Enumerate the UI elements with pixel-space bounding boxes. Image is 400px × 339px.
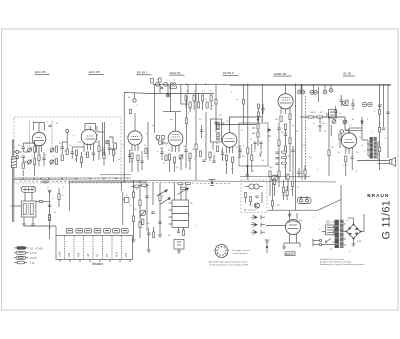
trimmer with arrow <box>106 140 109 144</box>
legend symbol: resistor 0.1W (filled) <box>14 246 43 250</box>
keyboard pushbutton B4 <box>94 228 101 233</box>
ferrite coil assembly box <box>21 201 36 217</box>
resistor R26 <box>289 138 291 144</box>
resistor R27 (horizontal) <box>308 116 314 118</box>
wire: long vertical AF <box>301 84 303 180</box>
svg-text:8n: 8n <box>352 119 354 121</box>
wire: EM80 feeds <box>290 210 298 220</box>
tone filter block <box>329 110 337 119</box>
capacitor C27 <box>340 95 343 106</box>
svg-text:c: c <box>41 129 42 131</box>
cathode resistor R32 <box>345 156 347 162</box>
mains plug <box>313 239 322 247</box>
svg-text:2M: 2M <box>295 131 298 133</box>
wire: V3 cathode to bus <box>132 159 138 173</box>
svg-text:k: k <box>306 199 307 201</box>
svg-text:u: u <box>57 149 58 151</box>
keyboard pushbutton B6 <box>113 228 120 233</box>
fuse F1 on bus <box>156 82 160 86</box>
phono connector box <box>174 240 184 254</box>
capacitor C23 <box>284 130 287 142</box>
svg-text:Tastatur: Tastatur <box>92 262 104 266</box>
tube V4 internals <box>170 112 181 152</box>
svg-text:1k: 1k <box>210 91 212 93</box>
svg-text:Lötseite gesehen: Lötseite gesehen <box>233 252 248 255</box>
keyboard column dividers (dashed) <box>65 236 122 259</box>
svg-text:5k: 5k <box>288 156 290 158</box>
svg-text:6k: 6k <box>262 160 264 162</box>
resistor R8 <box>98 146 100 152</box>
wire: stub at x121.6 <box>121 182 123 191</box>
svg-text:7: 7 <box>214 255 215 257</box>
mains switch <box>325 239 331 243</box>
capacitor C28 <box>351 99 354 110</box>
legend symbol: resistor 1W <box>14 261 35 265</box>
resistor R30 <box>328 150 330 156</box>
input jack TA arrow <box>251 215 257 219</box>
wire: rod to coil <box>25 192 32 201</box>
tone cap circle 3 <box>343 120 347 124</box>
svg-text:0,1 - 47 MΩ: 0,1 - 47 MΩ <box>30 247 43 250</box>
keyboard switch block <box>56 236 133 260</box>
svg-text:ECH 81: ECH 81 <box>170 71 181 75</box>
label EL84 (V7) <box>343 72 355 76</box>
tube V6 internals <box>280 98 291 115</box>
svg-text:h: h <box>188 113 189 115</box>
fuse F2 on bus <box>164 82 168 86</box>
wire drops from top bus <box>155 84 189 104</box>
oscillator coil resistors (horizontal) <box>134 184 147 187</box>
wire: AF nets below V6 <box>279 120 293 181</box>
wire: main chassis bus <box>14 180 336 183</box>
svg-text:220V~: 220V~ <box>326 223 333 225</box>
band switch contact 2 (diagonal) <box>160 198 171 205</box>
capacitor C14 <box>128 150 132 163</box>
tuning gang line 2 <box>51 121 53 147</box>
svg-text:MW: MW <box>78 252 81 257</box>
svg-text:2x: 2x <box>347 220 349 222</box>
wire: dashed AVC vertical <box>305 96 307 180</box>
capacitor C13 <box>108 143 112 155</box>
socket pin numbers <box>213 243 229 259</box>
resistors on feedback line <box>378 110 380 152</box>
wire: V4 signal grid from T2 <box>162 84 196 180</box>
wire: rectifier connections <box>348 214 364 244</box>
wire: EL84 grid feed <box>345 117 349 134</box>
aux socket <box>329 88 333 92</box>
svg-text:TA - Vorstufe: TA - Vorstufe <box>244 209 257 212</box>
svg-text:2k: 2k <box>62 195 64 197</box>
wire: right side verticals <box>380 84 389 170</box>
ground symbol <box>282 247 286 249</box>
svg-text:W: W <box>330 249 332 251</box>
svg-text:1M: 1M <box>331 147 334 149</box>
svg-text:1k: 1k <box>45 155 47 157</box>
tone cap circle 1 <box>342 101 346 105</box>
decoupling parts above bus <box>297 165 306 180</box>
coil L3 <box>56 146 58 165</box>
wire: vertical x329 <box>328 117 330 176</box>
output transformer T5 primary <box>370 137 373 159</box>
dipole antenna symbol <box>42 181 49 184</box>
svg-text:2n: 2n <box>290 189 292 191</box>
svg-text:5: 5 <box>224 258 225 260</box>
label ECC85 (V1) <box>35 70 50 74</box>
svg-text:47n: 47n <box>309 157 312 159</box>
wire: bus line upper left <box>14 177 131 179</box>
balun component <box>11 157 16 168</box>
svg-text:1n: 1n <box>236 99 238 101</box>
svg-text:2k: 2k <box>144 145 146 147</box>
mains transformer T6 secondary core <box>340 220 344 248</box>
capacitor C19 <box>200 125 203 138</box>
resistor R25 <box>285 146 287 152</box>
svg-text:1/2 W: 1/2 W <box>30 257 37 260</box>
wire: sub-chassis outline <box>69 182 147 211</box>
wire: primary to selector <box>322 232 335 245</box>
resistor R39 <box>139 222 141 228</box>
resistor R43 <box>286 186 288 200</box>
label ECH81 (V4) <box>170 71 185 75</box>
wire: dial lamp feed <box>123 192 129 225</box>
svg-text:5n: 5n <box>236 147 238 149</box>
aerial socket <box>323 90 327 94</box>
svg-text:x: x <box>158 131 159 133</box>
band switch contact 3 (diagonal) <box>178 188 189 195</box>
tone cap circle 2 <box>332 120 336 124</box>
wire: AF line y117 <box>300 116 345 118</box>
svg-text:osz: osz <box>170 119 173 121</box>
wire mesh under resistor bank <box>152 84 262 124</box>
capacitor C39 below box <box>246 165 249 176</box>
input jack TB arrow <box>251 223 257 227</box>
feedthrough cap <box>133 93 136 102</box>
wire: socket stems <box>301 84 331 102</box>
AM IF coil pair <box>155 136 165 146</box>
capacitor C38 <box>378 105 390 113</box>
wire: V2 anode bracket <box>85 124 104 133</box>
screen resistor R12 <box>137 155 139 161</box>
antenna coil L5 (hatched) <box>49 215 51 221</box>
oscillator coil L4 <box>168 154 175 163</box>
svg-text:1n: 1n <box>342 121 344 123</box>
svg-text:5n: 5n <box>313 123 315 125</box>
wire: heater bus segment <box>230 85 391 87</box>
svg-text:ECC 85: ECC 85 <box>35 70 46 74</box>
svg-text:1M: 1M <box>320 112 323 114</box>
svg-text:3n: 3n <box>284 167 286 169</box>
keyboard column captions (vertical) <box>59 251 129 257</box>
below-bus resistor cluster <box>178 183 191 190</box>
coil winding W1 <box>23 204 26 215</box>
svg-text:mit Röhrenvoltmeter, Tastatur: mit Röhrenvoltmeter, Tastatur Stellung U… <box>209 263 248 266</box>
wire: AF line to EM80 <box>268 209 318 211</box>
svg-text:10k: 10k <box>277 205 280 207</box>
wire: tuner output coupling <box>99 140 114 166</box>
capacitor C25 <box>324 112 332 118</box>
fuse block above bus <box>151 78 164 89</box>
svg-text:6k: 6k <box>140 217 142 219</box>
resistor R16 <box>216 146 218 152</box>
resistor R5 <box>75 150 77 156</box>
speaker LS <box>390 157 396 166</box>
junction dot <box>49 227 51 229</box>
valve socket diagram (viewed from below) <box>215 245 228 258</box>
resistor R6 <box>80 157 82 163</box>
diode D2 <box>345 117 363 130</box>
svg-text:1n: 1n <box>115 153 117 155</box>
wire: AVC rail segment <box>100 174 131 176</box>
module resistor Rm2 <box>250 197 252 202</box>
label EM80 (boxed) <box>285 252 295 256</box>
wire: V1 anode bracket <box>34 123 52 131</box>
dial lamp symbols <box>166 84 170 97</box>
label EABC80 (V6) <box>274 72 292 76</box>
wire: long vertical to EM80 <box>295 84 297 210</box>
capacitor C21 <box>238 145 241 158</box>
capacitor C18 <box>184 145 187 158</box>
mains transformer T6 primary core <box>335 220 339 248</box>
resistor R10 <box>112 150 114 156</box>
tube V7 internals <box>344 140 354 155</box>
module transistor <box>254 203 259 208</box>
resistor R37 <box>159 195 161 201</box>
svg-text:3: 3 <box>228 250 229 252</box>
diode D1 marks <box>268 129 272 137</box>
resistor R21 <box>280 116 282 122</box>
wire: diagonal to mains transformer <box>318 200 341 211</box>
tube V3 EF89 envelope <box>128 131 142 145</box>
ferrite antenna rod <box>21 186 36 192</box>
capacitor C20 <box>221 148 224 161</box>
resistor R41 on EM80 feed <box>271 182 273 210</box>
wire: tone network drops <box>270 177 293 201</box>
socket pins <box>216 246 226 256</box>
cathode resistor R11 <box>131 153 133 159</box>
svg-text:3n: 3n <box>292 125 294 127</box>
svg-text:5k: 5k <box>202 91 204 93</box>
trimmer capacitor C7 <box>50 148 54 153</box>
tube V6 EABC80 envelope <box>278 94 293 109</box>
capacitor C11 <box>71 147 75 159</box>
capacitor C22 <box>277 122 280 136</box>
resistor R19 <box>247 148 249 154</box>
svg-text:Fassungen von der: Fassungen von der <box>233 250 250 252</box>
ground symbol <box>22 224 26 226</box>
svg-text:2: 2 <box>226 245 227 247</box>
oscillator trimmer C17 <box>179 155 183 160</box>
ratio detector enclosure box <box>239 123 268 166</box>
volume pot P1 <box>272 175 278 181</box>
capacitor C1 <box>22 143 26 152</box>
gramophone input symbol <box>209 180 216 186</box>
label EF89 II (V5) <box>223 71 239 75</box>
manufacturer fine print <box>320 258 364 266</box>
keyboard pushbutton B2 <box>76 228 83 233</box>
resistor R35 <box>132 192 134 198</box>
antenna symbol (Y) <box>48 190 52 193</box>
resistor R34 on drop <box>58 188 60 207</box>
wire: osc feed vertical <box>185 96 187 145</box>
capacitor C30 <box>382 128 385 129</box>
chassis tick hatching <box>16 177 128 179</box>
svg-text:2k: 2k <box>194 91 196 93</box>
wire: long vertical at box edge <box>123 93 125 184</box>
voltage selector block <box>326 225 335 235</box>
resistor bank R30-R36 (screen feed) <box>185 95 212 108</box>
resistor R28 (horizontal) <box>317 116 323 118</box>
label EF89 I (V3) <box>137 71 152 75</box>
trimmer capacitor C8 <box>50 160 54 165</box>
svg-text:ECC 85: ECC 85 <box>89 70 100 74</box>
detector bottom cluster <box>253 142 262 150</box>
svg-text:1M: 1M <box>188 160 191 162</box>
module input transformer <box>245 184 263 189</box>
band switch contact (diagonal) <box>157 190 168 196</box>
tube V3 internals <box>130 113 140 151</box>
capacitor C34 <box>158 222 161 223</box>
wire: EL84 grid stopper <box>340 130 344 148</box>
resistor R15 <box>189 153 191 159</box>
coil L1 <box>34 140 36 158</box>
svg-text:8: 8 <box>213 250 214 252</box>
svg-text:Alle Spannungen gemessen gegen: Alle Spannungen gemessen gegen Chassis <box>209 261 248 264</box>
keyboard pushbutton B1 <box>66 228 73 233</box>
capacitor C31 <box>48 205 51 206</box>
wire: AM IF feed verticals <box>148 96 155 160</box>
grid capacitor C5 <box>39 152 44 158</box>
svg-text:1: 1 <box>221 243 222 245</box>
resistor R3 <box>61 155 63 161</box>
wire: tone block drop <box>330 125 332 136</box>
input jack LS arrow <box>251 230 257 234</box>
svg-text:3k: 3k <box>33 187 35 189</box>
svg-text:5n: 5n <box>147 156 149 158</box>
cathode resistor R17 <box>225 155 227 161</box>
keyboard pushbutton B5 <box>104 228 111 233</box>
antenna input sockets <box>14 151 19 159</box>
ground symbol <box>132 238 136 242</box>
tube V4 ECH81 envelope <box>168 131 183 146</box>
pushbutton caption dots <box>68 230 127 231</box>
legend symbol: resistor 0.5W <box>14 256 37 260</box>
svg-text:u: u <box>319 229 320 231</box>
capacitor C24 <box>291 146 294 156</box>
resistor R22 <box>285 124 287 130</box>
wire: module nets <box>246 192 262 206</box>
svg-text:TB: TB <box>106 254 109 257</box>
capacitor C2 <box>22 156 26 162</box>
component value annotations (micro text) <box>18 80 387 244</box>
coil L2 <box>34 159 36 165</box>
svg-text:Dr: Dr <box>173 80 175 82</box>
svg-text:1k: 1k <box>186 91 188 93</box>
legend symbol: resistor 0.25W <box>14 251 37 255</box>
svg-text:5k: 5k <box>144 187 146 189</box>
socket note text below <box>209 261 248 267</box>
headphone jack branch <box>265 240 270 253</box>
svg-text:EM 80: EM 80 <box>286 252 294 256</box>
svg-text:2n: 2n <box>254 151 256 153</box>
resistor R13 <box>145 148 147 154</box>
choke L20 on bus <box>170 83 177 89</box>
svg-text:Ausgabe 10.61 Printed in Germ: Ausgabe 10.61 Printed in Germany <box>320 260 351 263</box>
grid resistor R31 <box>339 134 341 140</box>
pickup jack block <box>169 200 189 227</box>
svg-text:UKW: UKW <box>59 251 62 257</box>
speaker socket pair 1 <box>298 90 305 94</box>
module resistor Rm1 <box>245 193 247 198</box>
svg-text:4: 4 <box>227 255 228 257</box>
T3 primary winding <box>217 122 219 130</box>
T3 secondary winding <box>217 133 219 141</box>
wire: EL84 anode to OPT <box>349 128 368 140</box>
extra value annotations <box>20 97 383 253</box>
resistor R42 <box>129 109 131 114</box>
wire: EABC80 top feed <box>285 84 287 93</box>
tube V8 EM80 envelope <box>286 220 301 235</box>
svg-text:1n: 1n <box>221 151 223 153</box>
wire: V2 grid net <box>72 143 84 168</box>
oscillator section resistors <box>195 144 211 158</box>
resistor R36 <box>139 200 141 206</box>
svg-text:TA: TA <box>97 254 100 257</box>
EM80 grid capacitor <box>288 215 291 216</box>
cathode resistor R7 <box>86 152 88 158</box>
UKW tuner dashed enclosure <box>14 117 121 183</box>
jack terminal ticks <box>261 215 265 235</box>
wire: detector line into EM80 <box>266 225 286 227</box>
svg-text:EL 84: EL 84 <box>344 72 352 76</box>
svg-text:1/4 W: 1/4 W <box>30 252 37 255</box>
svg-text:680k: 680k <box>311 112 315 114</box>
svg-text:6: 6 <box>218 258 219 260</box>
wire: detector leads <box>252 117 262 134</box>
resistor R40 <box>142 219 144 225</box>
svg-text:9k: 9k <box>128 97 130 99</box>
oscillator trimmer <box>140 210 146 216</box>
coil core <box>27 203 29 215</box>
svg-text:1 W: 1 W <box>30 262 35 265</box>
tube V8 internals <box>288 221 299 243</box>
module capacitor Cm1 <box>255 196 258 197</box>
bypass capacitor C29 <box>351 154 354 164</box>
svg-text:5k: 5k <box>205 99 207 101</box>
wire: AF rail segment right <box>240 176 310 178</box>
output transformer T5 secondary <box>374 137 377 159</box>
trimmer capacitor C4 <box>28 160 32 165</box>
capacitor C32 <box>145 196 148 197</box>
resistor R20 <box>251 155 253 161</box>
ratio detector chain <box>257 116 259 146</box>
capacitor row at detector output <box>276 151 287 164</box>
filter cap circles <box>362 102 372 106</box>
svg-text:EF 89 II: EF 89 II <box>223 71 234 75</box>
capacitor C26 <box>334 106 337 117</box>
wire: ECH81 anode riser <box>163 84 181 112</box>
svg-text:1n: 1n <box>212 105 214 107</box>
bypass capacitor C6 <box>39 158 46 166</box>
capacitor C15 <box>140 151 143 170</box>
svg-text:4n: 4n <box>152 125 154 127</box>
tube V2 internals <box>86 126 96 150</box>
svg-text:n: n <box>73 135 74 137</box>
svg-text:1M: 1M <box>242 156 245 158</box>
svg-text:5n: 5n <box>362 145 364 147</box>
wire: EM80 cathode net <box>284 243 300 247</box>
svg-text:1k: 1k <box>75 159 77 161</box>
wire: V5 legs to bus <box>227 161 233 175</box>
